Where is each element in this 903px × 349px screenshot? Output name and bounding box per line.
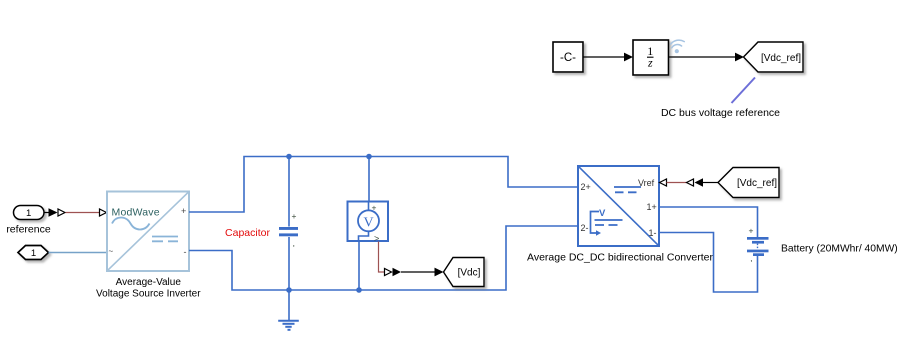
ground [278,321,299,330]
svg-text:1-: 1- [649,228,657,238]
svg-text:+: + [181,206,186,216]
wire [583,56,626,58]
port arrow (hollow) [687,179,694,186]
wire (signal, dark red) [66,212,101,214]
annotation line [732,78,756,104]
logging wifi badge [671,40,685,48]
wire (physical) [49,252,108,254]
wire (measurement, dark red) [379,242,385,273]
unit delay 1/z [633,40,669,75]
wire [401,271,436,273]
svg-text:+: + [292,211,297,221]
node: junction dots [286,154,292,160]
svg-text:Average-Value: Average-Value [116,277,182,288]
svg-text:+: + [372,203,377,213]
svg-text:V: V [599,208,606,219]
port arrow (filled) [44,212,49,214]
arrowhead [735,53,744,62]
wire: inverter + to top bus to converter 2+ [189,157,578,213]
wire: voltmeter return branch [358,241,360,290]
battery B1 [747,237,769,256]
svg-text:z: z [647,56,653,70]
svg-text:ModWave: ModWave [112,207,160,219]
port arrow (hollow, at inverter) [100,209,107,216]
wire: voltmeter top branch [368,157,370,203]
svg-text:1: 1 [26,208,31,219]
port arrow (hollow) [58,209,65,216]
svg-text:1+: 1+ [647,202,657,212]
svg-text:1: 1 [31,248,36,259]
wire (dark red) [667,182,688,184]
svg-text:Capacitor: Capacitor [225,227,270,239]
svg-text:[Vdc_ref]: [Vdc_ref] [737,178,777,189]
wire: capacitor branch upper [288,157,290,227]
capacitor C [279,227,298,236]
svg-text:Voltage Source Inverter: Voltage Source Inverter [96,289,201,300]
wire: inverter - to bottom bus to converter 2- [189,226,578,290]
goto tag [Vdc] [444,258,485,287]
wire: converter 1- to battery [659,233,758,293]
voltmeter U (Voltage Measurement) [348,202,389,244]
svg-text:2-: 2- [581,223,589,233]
arrowhead [624,53,633,62]
wire [669,56,737,58]
svg-text:Average DC_DC bidirectional Co: Average DC_DC bidirectional Converter [527,252,713,264]
svg-text:2+: 2+ [581,182,591,192]
port arrow (hollow) [385,269,392,276]
svg-text:DC bus voltage reference: DC bus voltage reference [661,107,780,119]
converter block (Average DC_DC bidirectional Converter) [578,166,659,246]
svg-text:-C-: -C- [560,52,576,64]
svg-text:+: + [749,226,754,236]
svg-text:-: - [184,247,187,257]
arrowhead (filled, pointing left) [695,178,704,186]
svg-text:V: V [363,216,373,231]
svg-text:Battery (20MWhr/ 40MW): Battery (20MWhr/ 40MW) [781,244,898,255]
from tag [Vdc_ref] [718,168,779,198]
goto tag [Vdc_ref] [744,42,804,72]
port arrow (hollow, at Vref) [660,179,667,186]
wire [703,182,719,184]
constant block -C- [553,42,583,72]
inport 1 (hexagon, physical) [18,246,49,260]
inverter block (Average-Value Voltage Source Inverter) [107,192,189,272]
wire: capacitor branch lower + ground stub [288,237,290,321]
wire: converter 1+ to battery [659,207,758,237]
svg-text:reference: reference [6,224,51,236]
arrowhead [435,268,444,277]
inport 1 (reference) [14,206,45,220]
port arrow (filled) [393,268,402,276]
svg-text:[Vdc_ref]: [Vdc_ref] [761,53,801,64]
svg-text:~: ~ [109,247,114,256]
svg-text:[Vdc]: [Vdc] [458,268,481,279]
